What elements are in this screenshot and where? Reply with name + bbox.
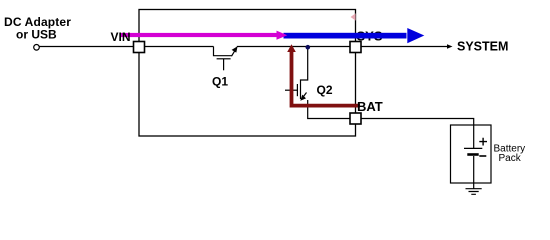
svg-text:BAT: BAT (357, 99, 383, 114)
svg-text:VIN: VIN (111, 30, 131, 44)
svg-text:Pack: Pack (499, 153, 522, 164)
svg-text:Q2: Q2 (317, 83, 333, 97)
svg-text:Q1: Q1 (212, 75, 228, 89)
svg-text:SYSTEM: SYSTEM (457, 40, 508, 54)
svg-text:or USB: or USB (16, 28, 57, 42)
